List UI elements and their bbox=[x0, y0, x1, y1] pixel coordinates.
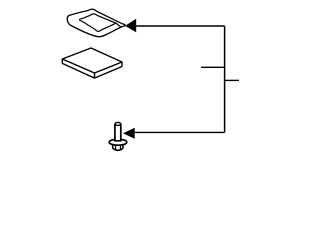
bolt B1 shaft top bbox=[115, 122, 121, 125]
vertical leader line bbox=[224, 26, 226, 132]
arrow to cover bbox=[125, 19, 136, 33]
bolt B1 hex facet line right bbox=[119, 146, 121, 150]
arrow to bolt bbox=[123, 128, 135, 139]
pad bottom-left edge bbox=[62, 63, 94, 78]
pad right edge bbox=[121, 62, 123, 67]
right tick bbox=[225, 79, 240, 81]
bolt B1 hex facet line left bbox=[115, 146, 117, 150]
cover rim edge bbox=[116, 23, 121, 27]
leader line to cover bbox=[136, 25, 225, 27]
pad top face bbox=[62, 48, 122, 73]
pad left edge bbox=[61, 59, 63, 63]
cover outer outline bbox=[67, 9, 125, 37]
pad bottom-right edge bbox=[95, 67, 123, 79]
bolt B1 flange bbox=[109, 139, 127, 145]
pad front edge bbox=[94, 73, 96, 78]
leader line to bolt bbox=[135, 131, 225, 133]
cover inner opening bbox=[79, 14, 116, 32]
bolt B1 hex head bbox=[112, 144, 123, 151]
left tick bbox=[201, 66, 225, 68]
bolt B1 shaft bbox=[115, 124, 121, 141]
